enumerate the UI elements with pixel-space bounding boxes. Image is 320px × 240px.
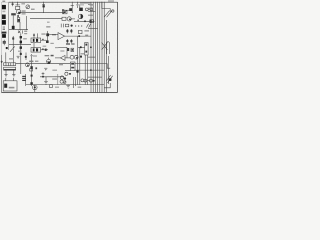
junction dot [71, 25, 73, 27]
wire vertical [66, 47, 68, 58]
capacitor C5 [47, 31, 49, 41]
label sheet number [108, 0, 114, 1]
ground G4 [17, 55, 20, 57]
switch S2 crossed [102, 42, 108, 49]
transistor Q3 [78, 14, 83, 19]
capacitor C2 [69, 8, 72, 11]
node grey band B5 [3, 29, 5, 30]
wire stubs to T1 [5, 52, 7, 59]
capacitor C8 [42, 73, 45, 75]
label t7 [9, 58, 14, 59]
transistor Q5 [47, 59, 51, 63]
wire node [9, 29, 28, 31]
label t4 [41, 33, 45, 34]
resistor R13 [46, 40, 49, 43]
wire h long [26, 84, 104, 86]
junction dot [31, 75, 33, 77]
wire [65, 69, 70, 71]
wire h bus2 [30, 18, 62, 20]
node junction dot [6, 47, 8, 49]
transistor Q2 [67, 17, 71, 21]
border frame right [117, 2, 119, 92]
junction dot bus2 [90, 69, 92, 71]
wire top tick [12, 2, 14, 6]
wire verticals bottom mid [72, 77, 74, 88]
capacitor C12 [35, 67, 37, 69]
wire mid h [16, 63, 71, 65]
wire [41, 49, 48, 51]
junction dot [76, 70, 78, 72]
diode D5 [30, 66, 32, 68]
IC U3 [70, 62, 75, 71]
wire VR1 legs [84, 55, 86, 85]
relay K2 [62, 17, 66, 20]
wire [41, 39, 46, 41]
transistor Q7 [60, 80, 63, 83]
wire branch [26, 16, 28, 30]
label t6 [52, 78, 57, 79]
switch S1 [104, 11, 110, 18]
capacitor C1 [12, 26, 15, 29]
wire collector [17, 2, 19, 6]
small parts above [45, 55, 50, 56]
ground G5 [45, 77, 47, 82]
diode D6 [30, 82, 32, 84]
resistor network RN2 [31, 48, 41, 53]
relay contact K3 [50, 85, 53, 88]
dotted row [75, 25, 76, 26]
label t15 [50, 43, 53, 44]
junction dot [84, 20, 86, 22]
capacitor C11 marks [18, 31, 20, 33]
junction dot bus [90, 46, 92, 48]
capacitor C13 [67, 48, 69, 51]
transistor Q11 [70, 55, 74, 59]
relay K4 coil [78, 30, 82, 33]
wire verticals [20, 33, 22, 74]
label u3 [59, 64, 63, 65]
transistor Q8 [81, 79, 84, 82]
connector J2 pins [22, 76, 26, 77]
wire vertical small [57, 74, 59, 85]
op-amp U2 [60, 55, 65, 60]
wire mid left h [9, 44, 31, 46]
op-amp U1 [58, 33, 65, 40]
bus wires right [90, 2, 92, 93]
label [52, 70, 57, 71]
node black band B2 [2, 15, 6, 20]
label t3 [46, 26, 50, 27]
lamp LP1 [112, 10, 114, 12]
resistor R3 [17, 17, 19, 22]
transistor Q9 [90, 79, 93, 82]
label text [80, 3, 91, 4]
node legend text top-left [2, 1, 5, 2]
transistor Q1 [16, 6, 20, 9]
regulator VR1 [85, 43, 89, 55]
label t13 [60, 50, 64, 51]
diode D1 [26, 5, 30, 9]
capacitor C6 [66, 39, 68, 43]
transistor Q6 [60, 76, 63, 79]
label q4 [29, 61, 33, 63]
wire elbow top right [102, 2, 110, 12]
label d7 [23, 38, 27, 39]
battery BT1 [4, 84, 7, 88]
wire h [40, 76, 64, 78]
label legend mid [2, 11, 5, 13]
resistor R5 [90, 8, 93, 11]
capacitor C14 [20, 41, 22, 44]
label bus pin names [90, 4, 94, 5]
transformer T1 [4, 63, 16, 66]
label t5 [84, 30, 89, 31]
ground G1 [4, 74, 7, 76]
transistor Q4 [26, 63, 30, 67]
label t2 [31, 9, 35, 10]
border frame bottom [1, 91, 117, 93]
node black band B3 [2, 20, 6, 25]
label t11 [18, 51, 21, 52]
diode D7 [20, 36, 22, 38]
label t1 [21, 3, 25, 4]
resistor R1 [11, 13, 16, 15]
wire left margin separator [8, 2, 10, 50]
ground G3 [66, 84, 70, 86]
bus stubs [88, 4, 93, 6]
label U1 value [66, 43, 70, 45]
border frame left [0, 55, 2, 92]
junction dot [80, 56, 82, 58]
label plus-minus [85, 35, 88, 36]
label t10 [33, 55, 37, 56]
label R2 [22, 10, 26, 11]
label t16 [76, 4, 84, 5]
label q12 [81, 53, 84, 54]
junction dot [25, 56, 27, 58]
label t12 [55, 47, 58, 48]
LED D3 [33, 85, 38, 90]
label t9 [47, 22, 50, 23]
scan noise texture [0, 0, 1, 1]
inductor hairpin L1 [107, 42, 110, 54]
tick mark on left border [1, 61, 3, 63]
node black band B6 [2, 32, 7, 34]
wire elbow right [88, 64, 110, 69]
switch S4 [86, 24, 88, 28]
label t8 [43, 46, 47, 47]
fuse F2 [43, 2, 45, 13]
wire elbow bottom right [104, 83, 110, 88]
relay K1 [63, 10, 67, 13]
ground G2 [12, 74, 15, 76]
resistor R6 [66, 29, 68, 33]
wire small parts row [60, 24, 62, 28]
wire stub [63, 9, 69, 11]
wire top right vertical [71, 2, 73, 13]
label [9, 87, 15, 89]
wire vertical [77, 36, 79, 85]
capacitor C15 [17, 15, 19, 17]
junction dot [78, 35, 80, 37]
node black band B1 [2, 5, 6, 9]
wire h bus1 [20, 12, 66, 14]
label t14 [30, 55, 32, 56]
label ear [52, 34, 56, 35]
wire h [74, 20, 95, 22]
resistor network RN1 [31, 38, 41, 43]
wire vertical feed [33, 33, 35, 38]
transistor Q12 [74, 55, 78, 59]
diode D2 [90, 20, 94, 23]
border frame top [9, 1, 118, 3]
junction dot [20, 53, 22, 55]
resistor R4 [85, 8, 88, 11]
resistor R8 [30, 69, 33, 71]
diode D4 [20, 46, 22, 49]
resistor R7 [70, 29, 72, 33]
transistor Q10 [65, 72, 68, 75]
wire emitter [12, 15, 14, 29]
resistor R14 [71, 48, 74, 51]
capacitor C7 [70, 39, 72, 43]
label bottom [55, 87, 59, 88]
capacitor C10 [3, 40, 5, 45]
enclosure box X1 [3, 81, 17, 91]
capacitor C3 [79, 8, 83, 11]
node grey band B4 [3, 26, 5, 27]
ground [44, 67, 47, 69]
label F1 [16, 4, 20, 5]
switch S3 [107, 76, 112, 83]
wire [78, 46, 85, 48]
capacitor C4 [10, 46, 15, 51]
node black band B7 [2, 34, 6, 38]
